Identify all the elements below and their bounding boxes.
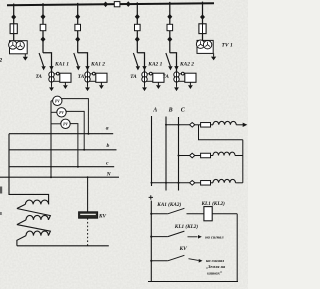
wire top busbar 6-10 kV [7, 3, 214, 5]
label КА1 2 [90, 61, 105, 67]
disconnector switch upper КА1 1 [41, 14, 46, 20]
wire phase branch 1 to coil [211, 124, 214, 126]
disconnector switch TV1 [200, 14, 205, 20]
wire feeder drop КА2 2 [169, 2, 171, 53]
wire feeder drop КА1 1 [42, 3, 44, 53]
svg-text:КV: КV [98, 213, 107, 219]
winding open-delta section 1 [17, 200, 49, 208]
wire branch3 output [236, 182, 243, 184]
contact KV blade [168, 255, 185, 260]
scan mark left edge 1 [0, 187, 2, 194]
junction terminal circle КА1 1 [56, 72, 59, 75]
voltage transformer TV1 winding 1 [196, 40, 204, 48]
junction branch1-C [178, 124, 180, 126]
svg-text:КV: КV [179, 246, 188, 252]
arrow rung3 to signal [189, 259, 203, 263]
svg-text:b: b [107, 143, 110, 149]
svg-text:КА1 (КА2): КА1 (КА2) [156, 201, 181, 208]
wire voltmeter PV2 left lead [51, 111, 57, 113]
wire bottom conductor [17, 245, 109, 247]
switch blade open contact КА1 2 [74, 53, 79, 66]
wire phase branch 2 to coil [211, 155, 214, 157]
winding open-delta section 2 [17, 215, 49, 224]
wire control left rail [150, 201, 152, 282]
wire voltmeter PV3 right lead [70, 124, 78, 167]
svg-text:КА2 1: КА2 1 [147, 61, 162, 67]
label coil KL1 (KL2) [201, 200, 226, 207]
wire rung2 fixed [151, 236, 168, 238]
ground under CT КА2 1 [142, 86, 147, 91]
junction branch2-C [178, 155, 180, 157]
svg-text:PV: PV [59, 111, 64, 115]
label shinah [207, 270, 223, 275]
wire feeder drop КА1 2 [77, 3, 79, 53]
wire CT secondary bottom КА1 2 [90, 80, 97, 82]
svg-text:ТА: ТА [163, 74, 170, 80]
junction branch1-B [165, 124, 167, 126]
resistor phase branch 2 [201, 153, 211, 158]
disconnector switch upper КА1 2 [75, 14, 80, 20]
junction PV3 on bus [77, 166, 79, 168]
label B [168, 107, 173, 113]
wire phase branch 1 to resistor [195, 124, 201, 126]
ground under CT КА1 2 [85, 86, 90, 91]
wire rung1 fixed [151, 213, 168, 215]
label b [107, 143, 110, 149]
junction PV common on N [50, 176, 52, 178]
resistor phase branch 1 [201, 123, 211, 128]
contact KL1 (KL2) blade [168, 231, 185, 237]
junction terminal circle КА2 1 [149, 72, 152, 75]
wire phase lead B [165, 117, 167, 191]
junction PV1 on bus [87, 133, 89, 135]
label TA КА2 2 [163, 74, 170, 80]
junction branch3-A [151, 182, 153, 184]
arrow outgoing line КА2 2 [168, 66, 172, 70]
svg-text:a: a [106, 126, 109, 132]
svg-text:КА1 1: КА1 1 [54, 61, 69, 67]
svg-text:А: А [152, 107, 157, 113]
relay КА2 1 [153, 73, 164, 82]
switch blade open contact КА2 1 [133, 53, 138, 66]
wire TV1 drop [202, 2, 204, 41]
junction rung2 rail [150, 236, 152, 238]
disconnector switch TV2 [11, 14, 16, 20]
voltmeter PV2 [57, 108, 66, 117]
wire feeder jog КА2 1 [137, 53, 144, 72]
label contact KV [179, 246, 188, 252]
ground TV2 [23, 54, 28, 61]
resistor phase branch 3 [201, 181, 211, 186]
current transformer TA КА2 2 [174, 70, 179, 86]
relay КА1 2 [96, 73, 107, 82]
svg-text:КL1 (КL2): КL1 (КL2) [201, 200, 226, 207]
arrow on CT lead КА2 2 [174, 66, 178, 70]
wire zigzag link 2 [17, 225, 51, 236]
disconnector switch lower КА2 1 [135, 37, 140, 43]
ground TV1 [211, 53, 216, 60]
disconnector switch lower КА1 1 [41, 37, 46, 43]
switch blade open contact КА2 2 [166, 53, 171, 66]
wire PV common lead [50, 101, 52, 177]
wire voltmeter PV1 left lead [51, 100, 53, 102]
wire feeder jog КА2 2 [170, 53, 177, 72]
wire feeder drop КА2 1 [136, 2, 138, 53]
voltage transformer TV2 winding 1 [9, 41, 17, 49]
wire CT secondary top КА2 1 [147, 73, 154, 75]
inductor phase branch 2 [213, 152, 235, 155]
wire right return riser [242, 140, 244, 183]
label contact KL1 (KL2) [174, 223, 199, 230]
ground under relay КА1 2 [99, 82, 104, 89]
scan mark left edge 2 [0, 212, 2, 215]
wire branch1 tap down [199, 125, 243, 140]
label TA КА2 1 [130, 74, 137, 80]
wire CT secondary top КА2 2 [179, 73, 186, 75]
wire phase lead A [151, 116, 153, 186]
voltmeter PV3 [61, 119, 70, 128]
label a [106, 126, 109, 132]
svg-text:„Земля на: „Земля на [206, 264, 226, 269]
wire control bottom rail [148, 281, 238, 283]
svg-text:КL1 (КL2): КL1 (КL2) [174, 223, 199, 230]
junction branch3-C [178, 182, 180, 184]
svg-text:В: В [168, 107, 173, 113]
ground under relay КА1 1 [63, 82, 68, 89]
fuse diamond phase branch 3 [190, 181, 195, 186]
wire voltmeter PV2 right lead [66, 111, 84, 149]
label na signal 2 [206, 258, 225, 263]
svg-text:КА2 2: КА2 2 [179, 61, 194, 67]
arrow on CT lead КА1 2 [85, 66, 89, 70]
circuit breaker КА1 1 [40, 24, 46, 30]
ground under CT КА1 1 [49, 86, 54, 91]
junction terminal circle КА1 2 [92, 72, 95, 75]
fuse diamond phase branch 2 [190, 153, 195, 158]
disconnector on bus left [103, 2, 108, 8]
svg-text:ТА: ТА [36, 74, 43, 80]
wire control right rail [236, 214, 238, 282]
arrow outgoing line КА1 2 [76, 66, 80, 70]
relay КА1 1 [60, 73, 71, 82]
label C [181, 107, 186, 113]
contact KA1 (KA2) blade [168, 208, 185, 214]
label TA КА1 2 [78, 74, 85, 80]
label A [152, 107, 157, 113]
label КА1 1 [54, 61, 69, 67]
label TV2 [0, 58, 2, 64]
disconnector switch lower КА1 2 [75, 37, 80, 43]
wire CT secondary bottom КА2 2 [179, 80, 186, 82]
circuit breaker КА2 2 [167, 24, 173, 30]
wire rung1 to coil [187, 213, 204, 215]
wire branch phase branch 1 [166, 124, 190, 126]
current transformer TA КА2 1 [142, 70, 147, 86]
ground under relay КА2 2 [188, 82, 193, 89]
wire rung3 fixed [151, 260, 168, 262]
arrow on CT lead КА1 1 [49, 66, 53, 70]
bus coupler breaker [114, 2, 120, 7]
wire CT secondary top КА1 2 [90, 73, 97, 75]
label contact KA1 (KA2) [156, 201, 181, 208]
wire KV lead from N [87, 177, 89, 212]
wire branch phase branch 3 [152, 182, 190, 184]
junction terminal circle КА2 2 [181, 72, 184, 75]
current transformer TA КА1 2 [85, 70, 90, 86]
svg-text:ТА: ТА [78, 74, 85, 80]
wire KV dashed lead [87, 218, 89, 246]
wire branch2 output [235, 155, 243, 157]
label TA КА1 1 [36, 74, 43, 80]
disconnector on bus right [126, 1, 131, 7]
arrow rung2 to signal [188, 235, 202, 239]
voltage transformer TV2 box [10, 41, 28, 54]
label plus [149, 195, 153, 199]
voltmeter PV1 [53, 96, 62, 105]
label TV1 [222, 42, 233, 48]
winding open-delta section 3 [17, 231, 49, 246]
wire voltmeter PV3 left lead [51, 123, 61, 125]
label KV [98, 213, 107, 219]
inductor phase branch 3 [213, 179, 235, 182]
svg-text:КА1 2: КА1 2 [90, 61, 105, 67]
circuit breaker КА2 1 [135, 24, 141, 30]
wire feeder jog КА1 1 [43, 53, 52, 72]
wire CT secondary bottom КА1 1 [54, 80, 61, 82]
ground under relay КА2 1 [156, 82, 161, 89]
svg-text:на сигнал: на сигнал [205, 235, 224, 240]
arrow on CT lead КА2 1 [142, 66, 146, 70]
junction KV on N [87, 176, 89, 178]
wire phase branch 3 to coil [211, 182, 214, 184]
voltage transformer TV1 winding 2 [203, 41, 211, 49]
svg-text:PV: PV [55, 100, 60, 104]
wire CT secondary bottom КА2 1 [147, 80, 154, 82]
wire bus N [0, 176, 119, 178]
wire bus a [9, 133, 113, 135]
junction rung3 rail [150, 260, 152, 262]
label zemlya [206, 264, 226, 269]
voltage transformer TV1 box [197, 40, 213, 53]
arrow outgoing line КА2 1 [136, 66, 140, 70]
label КА2 2 [179, 61, 194, 67]
disconnector switch upper КА2 1 [135, 14, 140, 20]
svg-text:ТА: ТА [130, 74, 137, 80]
fuse FU TV1 [199, 24, 206, 34]
label N [106, 172, 112, 178]
disconnector switch upper КА2 2 [167, 14, 172, 20]
fuse diamond phase branch 1 [190, 123, 195, 128]
arrow branch1 output [243, 123, 248, 127]
wire bus c [9, 166, 114, 168]
voltage transformer TV2 winding 2 [16, 41, 24, 49]
disconnector switch lower КА2 2 [167, 37, 172, 43]
wire left riser [9, 134, 49, 205]
wire zigzag link 1 [17, 209, 51, 220]
wire phase branch 3 to resistor [195, 182, 201, 184]
label na signal 1 [205, 235, 224, 240]
junction branch3-B [165, 182, 167, 184]
svg-text:PV: PV [63, 123, 68, 127]
label КА2 1 [147, 61, 162, 67]
arrow outgoing line КА1 1 [41, 66, 45, 70]
junction rung1 rail [150, 213, 152, 215]
switch blade open contact КА1 1 [39, 53, 44, 66]
wire CT secondary top КА1 1 [54, 73, 61, 75]
relay КА2 2 [185, 73, 196, 82]
wire phase branch 2 to resistor [195, 155, 201, 157]
wire phase lead C [178, 117, 180, 191]
ground under CT КА2 2 [174, 86, 179, 91]
junction PV2 on bus [83, 149, 85, 151]
wire feeder jog КА1 2 [78, 53, 88, 72]
wire branch phase branch 2 [179, 155, 190, 157]
wire TV2 drop [13, 4, 15, 41]
svg-text:ТV 1: ТV 1 [222, 42, 233, 48]
wire rung1 coil to rail [212, 213, 237, 215]
svg-text:шинах”: шинах” [207, 270, 223, 275]
wire branch1 output [236, 124, 243, 126]
current transformer TA КА1 1 [49, 70, 54, 86]
inductor phase branch 1 [213, 121, 236, 124]
svg-text:на сигнал: на сигнал [206, 258, 225, 263]
label c [106, 161, 109, 167]
wire voltmeter PV1 right lead [62, 99, 89, 134]
junction c crossing [50, 166, 52, 168]
relay coil KL1 (KL2) [204, 207, 212, 221]
svg-text:V2: V2 [0, 58, 2, 64]
fuse FU TV2 [10, 24, 17, 34]
relay KV coil [79, 212, 98, 218]
circuit breaker КА1 2 [75, 24, 81, 30]
wire bus b [9, 149, 117, 151]
